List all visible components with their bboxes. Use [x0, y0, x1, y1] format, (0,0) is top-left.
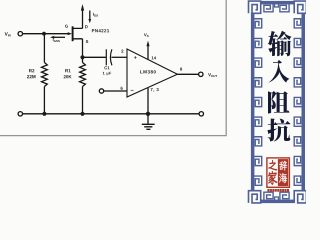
label R1: [65, 69, 70, 72]
wire: bottom ground rail: [22, 113, 199, 115]
node: ground junction: [146, 112, 150, 116]
node: R2 to rail junction: [42, 112, 46, 116]
wire: C1 to op-amp pin 2: [111, 56, 127, 58]
label VS: [144, 33, 149, 37]
transistor Q1 PN4221 JFET: [68, 4, 85, 57]
label 1 uF: [103, 72, 111, 75]
node: gate junction: [42, 32, 46, 36]
wire: R1 top lead: [82, 57, 84, 62]
resistor R1: [80, 63, 86, 87]
capacitor C1: [106, 49, 112, 65]
ground rail terminal left: [18, 112, 22, 116]
node: source node junction: [80, 55, 84, 59]
frame of schematic figure: [0, 0, 227, 136]
label G: [65, 25, 68, 28]
label pins 7 3: [151, 88, 159, 92]
node: R1 to rail junction: [80, 112, 84, 116]
resistor R2: [42, 63, 48, 87]
wire: R2 bottom lead: [43, 87, 45, 114]
ground symbol: [142, 114, 155, 130]
wire: ground pins 7,3: [147, 88, 149, 114]
seal stamp: [267, 158, 290, 187]
decorative meander border frame of title panel: [249, 1, 307, 203]
label pin 8: [180, 68, 182, 71]
wire: R2 top lead: [43, 34, 45, 63]
label VIN: [5, 32, 11, 36]
label IDS: [93, 13, 98, 17]
inverting input terminal pin 6: [99, 89, 127, 93]
label C1: [104, 66, 109, 69]
label 22M: [27, 75, 35, 78]
label minus input: [131, 89, 134, 92]
label S: [86, 40, 89, 43]
label pin 6: [121, 87, 123, 90]
supply arrow VS pin 14: [146, 41, 149, 60]
input terminal VIN: [18, 32, 22, 36]
current arrow IGSS: [50, 36, 65, 39]
label pin 14: [152, 57, 156, 60]
label IGSS: [53, 38, 60, 42]
label pin 2: [121, 50, 123, 53]
seal caption: [267, 189, 289, 192]
label R2: [29, 69, 34, 72]
label LM380: [140, 70, 156, 73]
wire: R1 bottom lead: [82, 87, 84, 114]
label plus input: [134, 56, 137, 59]
current arrow IDS: [88, 11, 91, 24]
ground rail terminal right: [199, 112, 203, 116]
op-amp U1 LM380: [127, 49, 177, 97]
wire: node to C1: [85, 56, 106, 58]
label VOUT: [208, 73, 217, 77]
label 20K: [64, 75, 72, 78]
label D: [85, 25, 88, 28]
output terminal VOUT: [199, 72, 203, 76]
label PN4221: [92, 29, 109, 32]
wire: output pin 8: [177, 73, 198, 75]
title characters: input impedance: [268, 31, 292, 142]
wire: VIN to gate node: [22, 33, 69, 35]
